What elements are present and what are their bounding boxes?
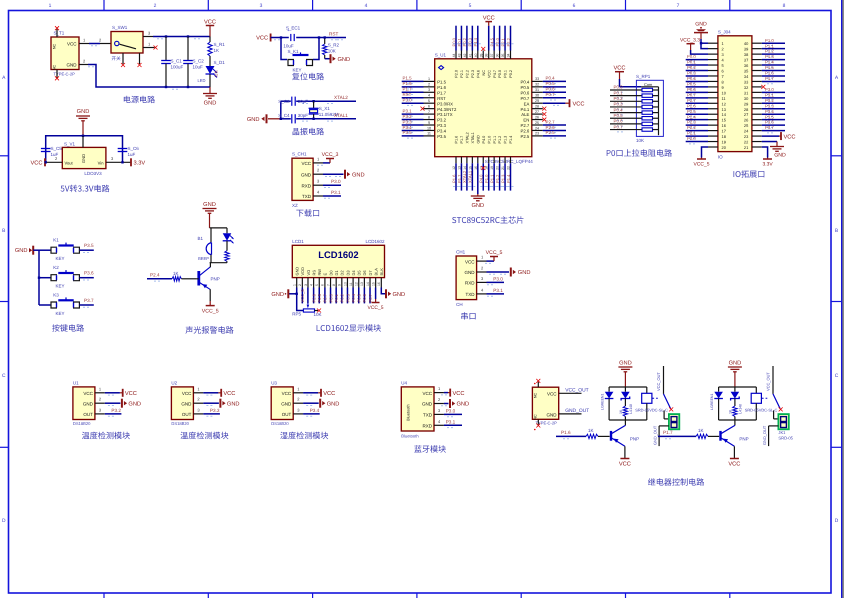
resistor alarm led bbox=[225, 251, 229, 263]
title 5V转3.3V电路 bbox=[61, 185, 110, 193]
svg-text:27: 27 bbox=[744, 112, 748, 117]
diode L4148 relay flyback bbox=[621, 387, 633, 414]
svg-text:VCC_5: VCC_5 bbox=[694, 162, 710, 168]
no-connect relay contact bbox=[669, 407, 673, 411]
connector S_J04 body bbox=[718, 29, 752, 159]
svg-text:KEY: KEY bbox=[55, 311, 64, 316]
wire relay bottom rail bbox=[719, 419, 757, 421]
capacitor S_EC1 10uF electrolytic bbox=[283, 26, 300, 49]
svg-text:P3.2: P3.2 bbox=[765, 98, 774, 103]
capacitor S_C5 1uF bbox=[41, 146, 62, 157]
svg-text:D: D bbox=[2, 518, 6, 524]
svg-text:D1: D1 bbox=[334, 270, 339, 275]
LED S_D1 bbox=[198, 60, 226, 87]
svg-text:VCC: VCC bbox=[223, 391, 235, 397]
pin 1 wire to VCC_3 bbox=[313, 156, 330, 165]
power port 3.3V bbox=[131, 158, 145, 166]
svg-text:OUT: OUT bbox=[83, 412, 93, 417]
resistor RP1 element 2 net P0.1 bbox=[610, 90, 659, 98]
io pin 6 wire net P0.2 bbox=[686, 65, 718, 73]
wire net VCC_OUT bbox=[559, 387, 589, 393]
svg-text:SRD-05VDC-SL-C: SRD-05VDC-SL-C bbox=[635, 408, 668, 413]
svg-text:P3.0: P3.0 bbox=[403, 98, 413, 103]
svg-text:KEY: KEY bbox=[55, 256, 64, 261]
title 声光报警电路 bbox=[186, 326, 234, 334]
U4 pin1 wire to VCC bbox=[434, 386, 465, 397]
svg-text:VCC: VCC bbox=[547, 392, 557, 397]
svg-text:GND: GND bbox=[476, 135, 480, 144]
junction lcd pin1 bbox=[296, 293, 298, 295]
svg-text:17: 17 bbox=[722, 129, 726, 134]
wire vcc33 to io pin3 bbox=[691, 50, 708, 54]
svg-text:P0.5: P0.5 bbox=[546, 81, 556, 86]
svg-text:VDD: VDD bbox=[300, 267, 305, 275]
pin 26 wire net EN bbox=[532, 115, 547, 121]
svg-text:30pF: 30pF bbox=[298, 113, 309, 118]
svg-text:P2.0: P2.0 bbox=[687, 136, 696, 141]
svg-text:P3.6: P3.6 bbox=[84, 271, 94, 276]
svg-text:P0.0: P0.0 bbox=[328, 293, 333, 302]
junction c6 branch bbox=[121, 161, 123, 163]
io pin 27 wire net P3.4 bbox=[752, 109, 785, 117]
svg-text:P3.1: P3.1 bbox=[403, 108, 413, 113]
svg-text:P3.4: P3.4 bbox=[437, 129, 446, 134]
U1 pin3 wire net P3.2 bbox=[95, 407, 122, 416]
svg-text:RST: RST bbox=[329, 31, 338, 36]
svg-text:P0.3: P0.3 bbox=[614, 102, 624, 107]
svg-text:P2.4: P2.4 bbox=[150, 272, 160, 277]
svg-text:VCC: VCC bbox=[453, 391, 465, 397]
resistor RP1 element 4 net P0.3 bbox=[610, 102, 659, 110]
svg-text:6: 6 bbox=[573, 3, 576, 9]
svg-text:S_J04: S_J04 bbox=[718, 29, 731, 34]
svg-text:P0.1: P0.1 bbox=[614, 90, 624, 95]
svg-text:S_C3: S_C3 bbox=[278, 99, 290, 104]
svg-text:6: 6 bbox=[428, 104, 430, 108]
svg-text:P0.7: P0.7 bbox=[368, 293, 373, 302]
svg-text:BEEP: BEEP bbox=[198, 256, 209, 261]
svg-text:OUT: OUT bbox=[282, 412, 292, 417]
relay coil SRD-05VDC-SL-C bbox=[635, 387, 668, 420]
svg-text:10uF: 10uF bbox=[193, 65, 204, 70]
svg-text:S_C6: S_C6 bbox=[128, 146, 140, 151]
svg-text:P0.7: P0.7 bbox=[687, 92, 696, 97]
U3 pin2 wire to GND bbox=[293, 397, 319, 406]
svg-text:PNP: PNP bbox=[211, 277, 220, 282]
svg-text:S_C5: S_C5 bbox=[51, 146, 63, 151]
svg-text:STC89C52RC_LQFP44: STC89C52RC_LQFP44 bbox=[485, 159, 534, 164]
io pin 11 wire net P0.7 bbox=[686, 92, 718, 100]
ground GND ldo top bbox=[76, 109, 90, 136]
svg-text:K1: K1 bbox=[53, 238, 59, 243]
sensor U1 DS18B20 body bbox=[73, 380, 95, 426]
mcu S_U1 STC89C52RC body bbox=[435, 52, 534, 164]
svg-text:24: 24 bbox=[535, 126, 539, 130]
wire net GND_OUT relay bbox=[653, 425, 669, 446]
svg-text:VCC: VCC bbox=[619, 462, 631, 468]
svg-text:P0.6: P0.6 bbox=[521, 90, 530, 95]
ground GND power circuit bbox=[203, 87, 217, 107]
io pin 20 wire to VCC_5 bbox=[694, 147, 718, 168]
svg-text:S_SW1: S_SW1 bbox=[112, 25, 128, 30]
svg-text:P3.0: P3.0 bbox=[765, 87, 774, 92]
wire ldo top rail bbox=[46, 136, 123, 163]
wire relay top rail bbox=[609, 386, 647, 388]
svg-text:OUT: OUT bbox=[182, 412, 192, 417]
lcd pin3 wire to pot wiper bbox=[307, 288, 309, 304]
io pin 33 wire net P1.7 bbox=[752, 76, 785, 84]
svg-text:S_C2: S_C2 bbox=[193, 59, 205, 64]
svg-text:Vin: Vin bbox=[98, 160, 105, 165]
key S_K1 KEY bbox=[287, 49, 312, 72]
svg-text:1: 1 bbox=[722, 41, 724, 46]
svg-text:GND: GND bbox=[77, 109, 90, 115]
svg-text:C: C bbox=[2, 373, 6, 379]
pin 3 wire net P1.7 bbox=[402, 87, 435, 95]
svg-text:VCC: VCC bbox=[422, 391, 432, 396]
svg-text:100uF: 100uF bbox=[171, 65, 184, 70]
no-erc mark mcu bottom bbox=[481, 166, 485, 170]
svg-text:LDO3V3: LDO3V3 bbox=[84, 171, 102, 176]
svg-text:S_D1: S_D1 bbox=[214, 60, 226, 65]
io pin 8 wire net P0.4 bbox=[686, 76, 718, 84]
svg-text:GND: GND bbox=[67, 63, 78, 68]
junction R2 top bbox=[324, 36, 326, 38]
svg-text:P1.2: P1.2 bbox=[765, 49, 774, 54]
svg-text:12: 12 bbox=[355, 282, 359, 286]
svg-text:2: 2 bbox=[298, 284, 302, 286]
io pin 26 wire net P3.5 bbox=[752, 114, 785, 122]
svg-text:P2.6: P2.6 bbox=[546, 125, 556, 130]
io pin 13 wire net P2.6 bbox=[686, 103, 718, 111]
svg-text:VCC: VCC bbox=[728, 462, 740, 468]
LED LGREEN1 relay bbox=[710, 387, 723, 420]
svg-text:S_U1: S_U1 bbox=[435, 52, 447, 57]
regulator S_V1 LDO3V3 bbox=[62, 136, 106, 176]
svg-text:P0.6: P0.6 bbox=[362, 293, 367, 302]
wire key right branch bbox=[313, 38, 319, 60]
lcd pin 13 wire net P0.6 bbox=[362, 288, 367, 304]
svg-text:P3.5: P3.5 bbox=[437, 134, 446, 139]
svg-text:P2.4: P2.4 bbox=[687, 114, 696, 119]
svg-text:16: 16 bbox=[377, 282, 381, 286]
svg-text:LCD1: LCD1 bbox=[292, 239, 304, 244]
wire gnd to io pin1 pin2 bbox=[701, 39, 708, 49]
svg-text:U4: U4 bbox=[401, 380, 407, 385]
pin 31 wire net P0.6 bbox=[532, 87, 566, 95]
svg-text:LGREEN1: LGREEN1 bbox=[601, 394, 605, 410]
svg-text:P1.1: P1.1 bbox=[493, 136, 497, 144]
svg-text:GND: GND bbox=[83, 401, 94, 406]
resistor 1K alarm base bbox=[172, 271, 197, 281]
svg-text:P3.7: P3.7 bbox=[765, 125, 774, 130]
svg-text:D5: D5 bbox=[357, 270, 362, 276]
io pin 21 wire to 3.3V bbox=[752, 147, 773, 168]
pin 28 wire net P4.1 bbox=[532, 104, 547, 110]
title 复位电路 bbox=[292, 73, 324, 81]
svg-text:JK1: JK1 bbox=[778, 430, 786, 435]
svg-text:S_X1: S_X1 bbox=[319, 106, 331, 111]
pin S_SW1 bottom left no-connect bbox=[121, 53, 125, 67]
top pin 8 wire bbox=[489, 26, 497, 78]
svg-text:P3.0/RX: P3.0/RX bbox=[437, 101, 453, 106]
svg-text:11: 11 bbox=[427, 132, 431, 136]
svg-text:37: 37 bbox=[490, 54, 494, 58]
svg-text:P0.4: P0.4 bbox=[351, 293, 356, 302]
lcd pin stubs and numbers bbox=[293, 278, 382, 288]
svg-text:P2.1: P2.1 bbox=[687, 131, 696, 136]
svg-text:1: 1 bbox=[49, 3, 52, 9]
title 温度检测模块 bbox=[180, 432, 228, 440]
svg-text:P0.2: P0.2 bbox=[340, 293, 345, 302]
junction key bus K2 bbox=[38, 277, 40, 279]
svg-text:GND: GND bbox=[181, 401, 192, 406]
svg-text:S_CH1: S_CH1 bbox=[292, 152, 307, 157]
svg-text:P2.0: P2.0 bbox=[455, 70, 459, 78]
svg-text:GND: GND bbox=[457, 402, 470, 408]
sensor U2 DS18B20 body bbox=[171, 380, 193, 426]
power port VCC ldo input bbox=[30, 158, 45, 166]
frame row ticks and letters bbox=[0, 156, 842, 448]
svg-text:P0.0: P0.0 bbox=[614, 85, 624, 90]
no-connect relay contact bbox=[779, 407, 783, 411]
svg-text:GND_OUT: GND_OUT bbox=[565, 408, 589, 414]
svg-text:P3.0: P3.0 bbox=[331, 179, 341, 184]
svg-text:TXD: TXD bbox=[423, 413, 433, 418]
ground GND keys bbox=[15, 246, 39, 255]
svg-text:S_R1: S_R1 bbox=[214, 42, 226, 47]
serial pin2 wire to GND bbox=[477, 266, 509, 275]
capacitor S_C3 30pF bbox=[278, 97, 308, 106]
wire vcc to rp1 com bbox=[620, 79, 659, 87]
svg-text:23: 23 bbox=[535, 132, 539, 136]
pin TYPE-C-2P top no-connect bbox=[534, 379, 540, 387]
svg-text:TXD: TXD bbox=[302, 194, 312, 199]
svg-text:4: 4 bbox=[365, 3, 368, 9]
wire key K3 to net P3.7 bbox=[79, 298, 94, 307]
svg-text:U1: U1 bbox=[73, 380, 79, 385]
ground GND alarm bbox=[203, 202, 217, 228]
svg-text:GND: GND bbox=[338, 57, 351, 63]
ground GND lcd right bbox=[386, 289, 405, 298]
svg-text:L4148: L4148 bbox=[629, 404, 633, 414]
top pin 11 wire bbox=[506, 26, 514, 78]
svg-text:P3.1: P3.1 bbox=[331, 190, 341, 195]
label 开关 switch bbox=[112, 56, 121, 60]
svg-text:VCC: VCC bbox=[487, 70, 491, 78]
io pin 7 wire net P0.3 bbox=[686, 71, 718, 79]
io pin 12 wire net P2.7 bbox=[686, 98, 718, 106]
svg-text:VCC: VCC bbox=[125, 391, 137, 397]
svg-text:10K: 10K bbox=[328, 48, 336, 53]
svg-text:VCC: VCC bbox=[573, 101, 585, 107]
pin 7 wire net P3.1 bbox=[402, 108, 435, 116]
no-connect pot right bbox=[317, 309, 321, 313]
pin 29 wire net EA bbox=[532, 99, 585, 107]
svg-text:SRD-05VDC-SL-C: SRD-05VDC-SL-C bbox=[745, 408, 778, 413]
svg-text:7: 7 bbox=[428, 110, 430, 114]
wire alarm top rail bbox=[210, 227, 227, 229]
junction c5 branch bbox=[45, 161, 47, 163]
svg-text:22: 22 bbox=[744, 140, 748, 145]
svg-text:P0.3: P0.3 bbox=[687, 71, 696, 76]
svg-text:VCC_5: VCC_5 bbox=[368, 305, 384, 311]
svg-text:7: 7 bbox=[722, 74, 724, 79]
svg-text:Vout: Vout bbox=[65, 160, 74, 165]
pin 10 wire net P3.4 bbox=[402, 125, 435, 133]
relay coil SRD-05VDC-SL-C bbox=[745, 387, 778, 420]
svg-text:34: 34 bbox=[507, 54, 511, 58]
svg-text:DS18B20: DS18B20 bbox=[171, 421, 189, 426]
io pin 37 wire net P1.3 bbox=[752, 54, 785, 62]
svg-text:P0.4: P0.4 bbox=[546, 76, 556, 81]
resistor RP1 element 3 net P0.2 bbox=[610, 96, 659, 104]
svg-text:S_R2: S_R2 bbox=[328, 42, 340, 47]
svg-text:P3.2: P3.2 bbox=[403, 114, 413, 119]
svg-text:P1.6: P1.6 bbox=[455, 136, 459, 144]
wire net P1.6 relay1 base bbox=[556, 430, 586, 439]
svg-text:P3.0: P3.0 bbox=[446, 408, 456, 413]
svg-text:GND: GND bbox=[471, 203, 484, 209]
svg-text:XTAL2: XTAL2 bbox=[334, 95, 348, 100]
io pin 24 wire net P3.7 bbox=[752, 125, 785, 133]
svg-text:P1.1: P1.1 bbox=[489, 174, 494, 183]
capacitor S_C2 10uF bbox=[183, 37, 204, 88]
svg-text:LCD1602: LCD1602 bbox=[318, 249, 358, 260]
svg-text:P2.0: P2.0 bbox=[495, 37, 500, 46]
svg-text:P3.6: P3.6 bbox=[765, 120, 774, 125]
lcd pin1 gnd wire bbox=[288, 288, 303, 311]
pin 30 wire net P0.7 bbox=[532, 92, 566, 100]
pin 3 wire net P3.0 bbox=[313, 179, 341, 188]
svg-text:C: C bbox=[835, 373, 839, 379]
svg-text:P2.5: P2.5 bbox=[687, 109, 696, 114]
svg-text:VCC_5: VCC_5 bbox=[486, 250, 503, 256]
svg-text:P1.7: P1.7 bbox=[460, 136, 464, 144]
label JK1 SRD-05 bbox=[778, 430, 793, 441]
resistor RP1 element 8 net P0.7 bbox=[610, 124, 659, 132]
io pin 40 wire net P1.0 bbox=[752, 38, 785, 46]
svg-text:9: 9 bbox=[722, 85, 724, 90]
svg-text:P3.4: P3.4 bbox=[765, 109, 774, 114]
io pin 14 wire net P2.5 bbox=[686, 109, 718, 117]
svg-text:P1.6: P1.6 bbox=[451, 174, 456, 183]
svg-text:GND: GND bbox=[465, 270, 476, 275]
svg-text:K2: K2 bbox=[53, 265, 59, 270]
frame column ticks and numbers bbox=[104, 0, 730, 598]
pin 9 wire net P3.3 bbox=[402, 119, 435, 127]
power port VCC_3.3 io bbox=[680, 38, 700, 51]
svg-text:GND: GND bbox=[281, 401, 292, 406]
wire bottom rail power circuit bbox=[166, 87, 210, 89]
buzzer B1 BEEP bbox=[197, 228, 211, 263]
svg-text:TXD: TXD bbox=[466, 292, 476, 297]
svg-text:39: 39 bbox=[479, 54, 483, 58]
svg-text:P0.2: P0.2 bbox=[687, 65, 696, 70]
svg-text:11: 11 bbox=[349, 282, 353, 286]
svg-text:P2.5: P2.5 bbox=[546, 130, 556, 135]
top pin 9 wire bbox=[495, 26, 503, 78]
svg-text:P2.6: P2.6 bbox=[521, 129, 530, 134]
ground GND io top bbox=[694, 22, 708, 40]
svg-text:3.3V: 3.3V bbox=[134, 161, 146, 167]
svg-text:GND: GND bbox=[271, 292, 284, 298]
connector S_T1 TYPE-C-2P body bbox=[51, 31, 79, 77]
svg-text:13: 13 bbox=[360, 282, 364, 286]
svg-text:31: 31 bbox=[744, 90, 748, 95]
svg-text:P4.0: P4.0 bbox=[482, 136, 486, 144]
svg-text:P1.0: P1.0 bbox=[484, 174, 489, 183]
U2 pin3 wire net P3.3 bbox=[193, 407, 220, 416]
connector JK relay output bbox=[664, 411, 679, 430]
LED alarm bbox=[223, 228, 234, 251]
mcu right pin names bbox=[521, 80, 530, 140]
title 湿度检测模块 bbox=[280, 432, 328, 440]
capacitor S_C6 1uF bbox=[118, 146, 140, 157]
lcd pin 5 wire net P2.5 bbox=[317, 288, 322, 304]
ground GND U3 bbox=[320, 399, 339, 408]
resistor 1K relay led bbox=[728, 406, 737, 420]
lcd pin 2 wire net VCC_5 bbox=[300, 288, 305, 304]
junction reset right branch bbox=[318, 36, 320, 38]
svg-text:35: 35 bbox=[501, 54, 505, 58]
svg-text:26: 26 bbox=[535, 115, 539, 119]
svg-text:VCC: VCC bbox=[256, 36, 268, 42]
svg-text:14: 14 bbox=[366, 282, 370, 286]
svg-text:P3.1: P3.1 bbox=[493, 288, 503, 293]
svg-text:VCC: VCC bbox=[30, 161, 42, 167]
mcu left pin names bbox=[437, 80, 457, 140]
svg-text:GND: GND bbox=[518, 270, 531, 276]
title P0口上拉电阻电路 bbox=[607, 149, 672, 157]
svg-text:P0.7: P0.7 bbox=[546, 92, 556, 97]
svg-text:P2.2: P2.2 bbox=[687, 125, 696, 130]
svg-text:P2.1: P2.1 bbox=[460, 70, 464, 78]
svg-text:P1.6: P1.6 bbox=[765, 71, 774, 76]
pin 23 wire net P2.5 bbox=[532, 130, 566, 138]
io pin 5 wire net P0.1 bbox=[686, 60, 718, 68]
svg-text:U3: U3 bbox=[271, 380, 277, 385]
top pin 7 wire bbox=[485, 26, 492, 78]
svg-text:P4.6: P4.6 bbox=[476, 70, 480, 78]
title STC89C52RC主芯片 bbox=[452, 216, 523, 224]
svg-text:P1.7: P1.7 bbox=[403, 87, 413, 92]
wire Vin pin to 3.3V bbox=[106, 161, 131, 163]
svg-text:30pF: 30pF bbox=[298, 99, 309, 104]
bottom pin 7 wire bbox=[484, 136, 492, 191]
wire alarm bottom rail bbox=[210, 262, 227, 264]
pin 4 wire net RST bbox=[402, 92, 435, 100]
svg-text:9: 9 bbox=[428, 121, 430, 125]
io pin 23 wire to VCC bbox=[752, 132, 796, 140]
lcd pin15 wire to VCC_5 bbox=[368, 288, 384, 312]
svg-text:2: 2 bbox=[722, 47, 724, 52]
svg-text:GND_OUT: GND_OUT bbox=[762, 425, 767, 445]
top pin 3 wire bbox=[462, 26, 470, 78]
ground GND crystal bbox=[247, 114, 267, 123]
svg-text:VCC: VCC bbox=[784, 134, 796, 140]
svg-text:P0.4: P0.4 bbox=[521, 80, 530, 85]
svg-text:P0.5: P0.5 bbox=[614, 113, 624, 118]
key K3 KEY bbox=[39, 293, 79, 317]
top pin 5 wire bbox=[473, 26, 481, 78]
ground GND U1 bbox=[122, 399, 141, 408]
svg-text:36: 36 bbox=[496, 54, 500, 58]
svg-text:GND: GND bbox=[619, 361, 632, 367]
svg-text:P3.3: P3.3 bbox=[437, 123, 446, 128]
svg-text:GND: GND bbox=[128, 401, 141, 407]
relay switch contact bbox=[761, 366, 780, 409]
